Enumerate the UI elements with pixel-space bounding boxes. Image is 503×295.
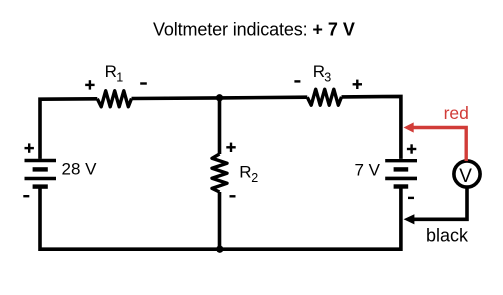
battery B2 plate short upper: [394, 167, 409, 171]
svg-text:7 V: 7 V: [355, 161, 381, 180]
plus sign at battery B1: [25, 143, 34, 152]
plus sign at R2 top: [226, 143, 235, 152]
battery B1 plate short bottom: [33, 184, 48, 188]
resistor R3: [307, 89, 341, 105]
wire node A down to R2: [218, 98, 222, 154]
battery B1 plate short upper: [33, 167, 48, 171]
node A junction dot: [216, 94, 223, 101]
wire top-left corner to R1: [40, 99, 97, 159]
svg-text:red: red: [444, 103, 469, 123]
black lead arrowhead: [404, 214, 415, 224]
minus sign at R1 right: [140, 82, 147, 84]
battery B1 28V plate long top: [25, 159, 57, 162]
minus sign at battery B1: [23, 195, 29, 197]
wire R1 to node A: [132, 96, 220, 100]
wire R3 to top-right corner down to battery: [342, 96, 401, 158]
black test lead wire: [413, 187, 467, 219]
svg-text:R: R: [313, 62, 325, 81]
wire battery B1 to bottom-left corner: [40, 187, 220, 250]
node B junction dot: [216, 246, 223, 253]
svg-text:2: 2: [251, 171, 258, 185]
resistor R1: [97, 91, 131, 107]
plus sign at R3 right: [353, 80, 362, 89]
minus sign at R2 bottom: [230, 195, 236, 197]
svg-text:black: black: [426, 226, 469, 246]
svg-text:Voltmeter indicates: + 7 V: Voltmeter indicates: + 7 V: [153, 20, 355, 40]
svg-text:R: R: [239, 162, 251, 181]
battery B1 plate long lower: [25, 177, 57, 181]
red test lead wire: [412, 128, 466, 162]
svg-text:3: 3: [324, 70, 331, 84]
svg-text:1: 1: [116, 71, 123, 85]
battery B2 7V plate long top: [385, 159, 417, 162]
wire node A to R3: [220, 95, 308, 99]
battery B2 plate short bottom: [394, 184, 409, 188]
wire node B to bottom-right corner up to battery B2: [220, 187, 401, 250]
minus sign at battery B2: [408, 197, 414, 199]
red lead arrowhead: [404, 122, 414, 132]
minus sign at R3 left: [294, 80, 300, 82]
resistor R2: [212, 154, 227, 192]
svg-text:R: R: [105, 62, 117, 81]
wire R2 to bottom node B: [218, 192, 222, 249]
plus sign at R1 left: [85, 80, 94, 89]
svg-text:V: V: [459, 166, 472, 187]
voltmeter U1 circle: [454, 161, 480, 187]
battery B2 plate long lower: [385, 177, 417, 181]
svg-text:28 V: 28 V: [62, 160, 98, 179]
plus sign at battery B2: [407, 144, 416, 153]
